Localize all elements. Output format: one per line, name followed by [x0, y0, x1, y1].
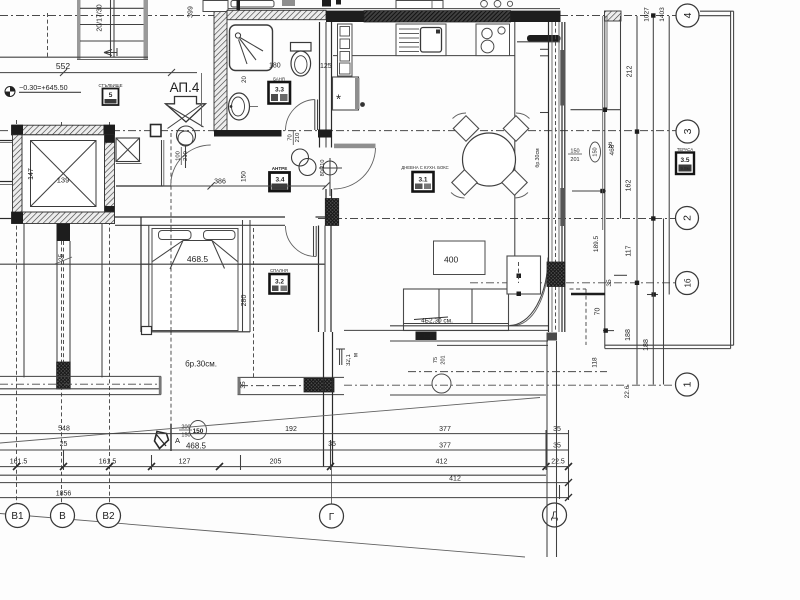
WC door leaf [314, 100, 316, 131]
sofa [404, 289, 509, 331]
svg-text:3.5: 3.5 [680, 157, 689, 164]
svg-text:22.5: 22.5 [551, 459, 565, 466]
axis 2 line [318, 218, 676, 220]
svg-text:210: 210 [183, 151, 189, 161]
top wall band [12, 125, 115, 135]
vertical jamb at 238 top [237, 0, 241, 11]
axis B2 vertical [109, 122, 111, 503]
wash basin [229, 93, 250, 120]
corridor door arc [171, 145, 211, 186]
svg-text:Г: Г [329, 512, 335, 523]
svg-text:20: 20 [242, 76, 248, 83]
svg-text:70: 70 [288, 134, 294, 140]
elevator cab inner [31, 141, 97, 207]
bottom wall band [12, 212, 115, 224]
hall lamp circles [292, 149, 309, 166]
stove [476, 24, 510, 56]
svg-text:32,1: 32,1 [346, 354, 352, 366]
svg-text:20/17/30: 20/17/30 [97, 4, 104, 31]
svg-text:201: 201 [570, 157, 579, 163]
svg-text:ДНЕВНА С КУХН. БОКС: ДНЕВНА С КУХН. БОКС [401, 165, 448, 170]
dim line A y433.5 [0, 433, 569, 435]
svg-text:70: 70 [595, 308, 602, 316]
stair center rail [110, 0, 112, 57]
wall stub y191 [572, 190, 606, 192]
svg-text:80/210: 80/210 [320, 160, 326, 177]
svg-text:386: 386 [214, 179, 226, 186]
wall solid segments on east wall [560, 50, 565, 106]
svg-text:192: 192 [285, 426, 297, 433]
svg-text:−0.30=+645.50: −0.30=+645.50 [19, 83, 68, 92]
svg-text:35: 35 [606, 279, 613, 287]
dark blob 3 [336, 0, 341, 5]
svg-text:280: 280 [241, 295, 248, 307]
circled 150 below bedroom [190, 421, 207, 440]
svg-text:201: 201 [441, 355, 447, 364]
hatched light band over bath [227, 10, 326, 19]
dark blob 1 [282, 0, 295, 6]
right wall black bottom [105, 206, 115, 224]
svg-text:35: 35 [553, 426, 561, 433]
svg-text:1б: 1б [683, 278, 692, 287]
svg-text:бр.30см.: бр.30см. [185, 360, 217, 369]
WC door arc [286, 100, 315, 131]
door leaf gray [334, 144, 376, 149]
top wall black block right [104, 125, 116, 136]
south interior line [141, 331, 250, 333]
svg-text:25: 25 [60, 441, 68, 448]
level mark [5, 87, 15, 97]
svg-text:22.6: 22.6 [624, 385, 631, 398]
svg-text:1027: 1027 [644, 7, 651, 22]
dim line y497.5 [0, 497, 569, 499]
thin vertical line x201 [201, 73, 203, 127]
bottom wall black block left [12, 212, 24, 224]
terrace top edge [700, 10, 734, 12]
svg-text:377: 377 [439, 443, 451, 450]
svg-text:147: 147 [28, 168, 35, 180]
svg-text:468.5: 468.5 [187, 254, 209, 264]
dining table [463, 133, 516, 186]
column below shaft (black) [57, 224, 71, 242]
black segment right [511, 11, 561, 22]
long floor line y264 [0, 263, 325, 265]
corridor west wall [161, 140, 163, 186]
bedroom east wall dashed center [253, 228, 255, 377]
burners other apt [481, 0, 488, 7]
black block in beam [304, 378, 334, 392]
svg-text:АНТРЕ: АНТРЕ [272, 166, 288, 171]
svg-text:161.5: 161.5 [99, 459, 117, 466]
svg-text:4: 4 [682, 12, 694, 18]
svg-text:162: 162 [626, 180, 633, 192]
top strip above kitchen band (other apt) [203, 8, 560, 10]
svg-text:В1: В1 [11, 511, 24, 522]
svg-text:180: 180 [269, 63, 281, 70]
dash-dot overhang lines [408, 371, 607, 373]
svg-text:ТЕР: ТЕР [421, 334, 431, 340]
svg-text:35: 35 [553, 443, 561, 450]
junction dots on axis lines [635, 129, 639, 133]
junction circle [177, 126, 196, 145]
side wall lines below elevator [23, 224, 25, 378]
handle circle with cross [323, 161, 337, 175]
chair TR [503, 116, 528, 141]
svg-text:35: 35 [240, 381, 247, 389]
svg-text:205: 205 [270, 459, 282, 466]
short tick y294 with dot [647, 294, 658, 296]
circle symbol below living [432, 374, 451, 393]
west wall double [140, 217, 142, 332]
small wall box left of circle [151, 125, 162, 137]
left stub 2 [0, 181, 13, 183]
rounded tray top [231, 1, 274, 8]
terrace bottom edge [605, 344, 734, 346]
vertical drop ticks line1 [63, 450, 65, 470]
section cross lines [166, 105, 204, 128]
short tick y275 [614, 274, 627, 276]
column at beam (black) [57, 362, 71, 389]
tall cabinet stack [338, 24, 353, 76]
svg-text:2: 2 [681, 215, 693, 221]
bed [152, 229, 238, 331]
door arc [334, 148, 376, 189]
section line over bed [170, 228, 172, 332]
balcony curve double [510, 258, 549, 326]
dark block on wall (hall/living) [325, 199, 338, 226]
stair direction arrow [104, 48, 117, 56]
counter other apt [396, 1, 443, 9]
right wall black top [105, 135, 115, 143]
dim line B y450 [0, 449, 569, 451]
svg-text:бр.30см: бр.30см [535, 148, 541, 168]
svg-text:400: 400 [444, 255, 458, 265]
counter bottom edge [333, 55, 515, 57]
section A flag bottom [155, 432, 169, 449]
svg-text:В: В [59, 511, 66, 522]
axis B1 vertical [16, 120, 18, 503]
segment B [238, 376, 345, 378]
dashed stub vertical [518, 262, 520, 283]
axis 4 line [0, 15, 676, 17]
svg-text:1: 1 [681, 381, 693, 387]
svg-text:А: А [175, 436, 180, 445]
svg-text:1856: 1856 [56, 491, 72, 498]
svg-text:3.4: 3.4 [275, 177, 284, 184]
svg-text:399: 399 [188, 6, 195, 18]
svg-text:м: м [354, 353, 360, 357]
svg-text:139: 139 [57, 176, 70, 185]
svg-text:117: 117 [626, 245, 633, 256]
svg-text:Д: Д [551, 511, 558, 522]
struck dimension text [414, 317, 453, 325]
hall-corridor wall line [116, 185, 171, 187]
thick step line terrace [571, 293, 605, 295]
svg-text:ТЕРАСА: ТЕРАСА [677, 147, 693, 152]
bedroom door arc [286, 226, 317, 257]
building east wall [604, 16, 606, 349]
bedroom east wall below block [318, 226, 320, 333]
svg-text:3.2: 3.2 [275, 279, 284, 286]
door size 70/210 [288, 130, 302, 145]
svg-text:*: * [336, 92, 341, 107]
svg-text:5: 5 [109, 92, 113, 99]
floor line over bed [141, 263, 324, 265]
black bar right (over fridge area) [527, 35, 561, 42]
dim line y475 [0, 474, 546, 476]
dark blob 2 [322, 0, 331, 7]
section line A-A vertical [170, 133, 172, 438]
wall end piece right (hatched) [605, 11, 622, 21]
dim line 386 [163, 185, 326, 187]
svg-text:468.5: 468.5 [186, 442, 207, 451]
svg-text:3: 3 [682, 128, 694, 134]
fridge [333, 77, 359, 110]
stair side wall right [144, 0, 149, 59]
chair BR [502, 170, 527, 195]
coffee table 400 [434, 241, 486, 275]
entrance/section arrow [166, 97, 206, 123]
svg-text:3.1: 3.1 [418, 177, 427, 184]
svg-text:189.5: 189.5 [593, 235, 600, 252]
chair BL [452, 170, 477, 195]
D axis verticals [546, 341, 548, 557]
svg-text:В2: В2 [102, 511, 115, 522]
dashed guide on terrace [570, 288, 587, 290]
east wall single [242, 220, 244, 332]
black segment left [326, 11, 364, 22]
dots near chaise [517, 274, 522, 279]
svg-text:548: 548 [58, 426, 70, 433]
dim line x602 between axes [602, 16, 604, 230]
stair side wall left [77, 0, 81, 59]
sofa chaise [507, 256, 541, 294]
svg-text:СПАЛНЯ: СПАЛНЯ [270, 268, 288, 273]
wall below door to block [325, 189, 327, 199]
svg-text:35: 35 [328, 441, 336, 448]
svg-text:412: 412 [449, 476, 461, 483]
sink unit [396, 24, 446, 56]
corridor lamp [178, 131, 193, 146]
stair bottom edge [0, 56, 148, 58]
kitchen right wall line [514, 22, 516, 258]
svg-text:127: 127 [179, 459, 191, 466]
dim line 1 y466.5 [0, 466, 569, 468]
small box top (sink other apt) [203, 1, 228, 12]
top wall black block left [12, 125, 24, 136]
svg-text:412: 412 [436, 459, 448, 466]
svg-text:377: 377 [439, 426, 451, 433]
dense hatch middle [364, 11, 511, 22]
svg-text:150: 150 [592, 147, 598, 156]
diag line upper [0, 398, 540, 444]
bathroom south wall black [214, 130, 282, 137]
svg-text:150: 150 [241, 171, 248, 182]
dark block on wall at 1b [547, 262, 565, 287]
svg-text:210: 210 [295, 133, 301, 143]
svg-text:552: 552 [56, 61, 70, 71]
slab lines [390, 325, 548, 327]
svg-text:9.8м: 9.8м [680, 166, 689, 171]
elevator X cross [31, 141, 97, 207]
svg-text:СТЪЛБИЩЕ: СТЪЛБИЩЕ [99, 83, 123, 88]
left stub 3 [0, 218, 12, 220]
svg-text:188: 188 [625, 329, 632, 341]
chair TL [453, 116, 478, 141]
stairwell dashed vertical [47, 13, 49, 59]
diag line lower [0, 514, 525, 558]
axis 3 line [0, 130, 676, 132]
shower cabin [230, 25, 273, 71]
step line on terrace [571, 109, 621, 111]
bracket piece right of beam [339, 349, 341, 365]
svg-text:3.3: 3.3 [275, 87, 284, 94]
north wall double [115, 216, 285, 218]
svg-text:75: 75 [433, 357, 439, 363]
right shaft wall hatched [105, 135, 115, 224]
svg-text:100: 100 [176, 151, 182, 161]
axis 1b line [470, 282, 675, 284]
elevator cab outer [22, 135, 105, 212]
svg-text:188: 188 [643, 339, 650, 351]
stair treads [80, 7, 144, 9]
corner box SW bedroom [142, 327, 152, 335]
door size 100/210 [176, 147, 190, 165]
svg-text:118: 118 [592, 357, 599, 368]
svg-text:56: 56 [608, 141, 614, 148]
svg-text:АП.4: АП.4 [170, 80, 200, 95]
svg-text:1403: 1403 [659, 7, 666, 22]
axis B vertical [61, 122, 63, 503]
terrace tag black [416, 332, 437, 341]
ticks on line 1 [13, 463, 572, 470]
wall lines below column [56, 241, 58, 362]
svg-text:212: 212 [627, 66, 634, 78]
corner dark rect at wall/slab junction [547, 333, 558, 341]
short tick y330 with dot [603, 330, 614, 332]
toilet [291, 43, 312, 52]
left shaft wall hatched [13, 135, 23, 224]
dim line under 552 [0, 72, 197, 74]
left stub 1 [0, 140, 13, 142]
solid line below [390, 394, 546, 396]
dim line y482.5 [0, 482, 569, 484]
segment A [0, 375, 161, 377]
terrace right edge [730, 11, 732, 348]
